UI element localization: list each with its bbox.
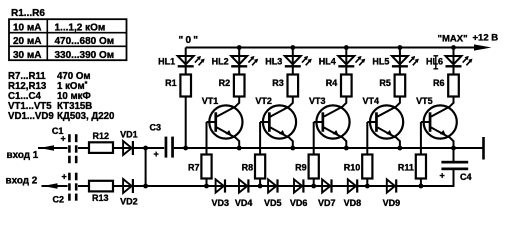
svg-text:VD1...VD9: VD1...VD9 (8, 111, 54, 122)
svg-text:470...680 Ом: 470...680 Ом (55, 36, 115, 47)
svg-text:вход 2: вход 2 (6, 176, 38, 187)
svg-text:C2: C2 (53, 194, 65, 204)
svg-text:C4: C4 (460, 172, 472, 182)
svg-text:VD3: VD3 (211, 198, 229, 208)
svg-text:R1...R6: R1...R6 (11, 8, 45, 19)
svg-text:R9: R9 (295, 163, 307, 173)
svg-text:+: + (62, 172, 67, 182)
svg-text:R2: R2 (219, 78, 231, 88)
svg-text:VT3: VT3 (309, 96, 326, 106)
svg-text:VT2: VT2 (255, 96, 272, 106)
svg-text:+: + (61, 134, 66, 144)
svg-text:HL5: HL5 (372, 57, 389, 67)
svg-text:"MAX": "MAX" (438, 34, 468, 45)
svg-text:C3: C3 (150, 122, 162, 132)
svg-text:R10: R10 (344, 163, 361, 173)
svg-text:R7: R7 (188, 163, 200, 173)
svg-text:+: + (440, 171, 445, 181)
svg-text:VD2: VD2 (120, 196, 138, 206)
svg-text:КД503, Д220: КД503, Д220 (57, 111, 114, 122)
svg-text:HL2: HL2 (212, 57, 229, 67)
svg-text:+: + (154, 149, 159, 159)
svg-text:R5: R5 (379, 78, 391, 88)
svg-text:VD8: VD8 (344, 198, 362, 208)
svg-text:VT5: VT5 (416, 96, 433, 106)
svg-text:вход 1: вход 1 (7, 150, 39, 161)
svg-text:+12 В: +12 В (473, 33, 499, 44)
svg-text:VD9: VD9 (383, 198, 401, 208)
svg-text:30 мА: 30 мА (13, 50, 42, 61)
svg-text:VT1: VT1 (202, 96, 219, 106)
svg-text:10 мА: 10 мА (13, 23, 42, 34)
svg-text:HL4: HL4 (319, 57, 336, 67)
svg-text:R6: R6 (433, 78, 445, 88)
svg-text:VD1: VD1 (120, 129, 138, 139)
svg-text:330...390 Ом: 330...390 Ом (55, 50, 115, 61)
svg-text:VD4: VD4 (235, 198, 253, 208)
svg-text:VD6: VD6 (290, 198, 308, 208)
svg-text:R13: R13 (92, 193, 109, 203)
svg-text:VD7: VD7 (318, 198, 336, 208)
svg-text:VT4: VT4 (363, 96, 380, 106)
svg-text:HL6: HL6 (426, 57, 443, 67)
svg-text:1...1,2 кОм: 1...1,2 кОм (55, 23, 106, 34)
svg-text:HL3: HL3 (265, 57, 282, 67)
svg-text:R4: R4 (326, 78, 338, 88)
svg-text:R11: R11 (398, 163, 414, 173)
svg-text:HL1: HL1 (158, 57, 175, 67)
svg-text:"0": "0" (179, 35, 201, 46)
svg-text:R12: R12 (93, 131, 110, 141)
svg-text:R3: R3 (272, 78, 284, 88)
svg-text:R8: R8 (242, 163, 254, 173)
svg-text:VD5: VD5 (264, 198, 282, 208)
svg-text:R1: R1 (165, 78, 177, 88)
svg-text:20 мА: 20 мА (13, 36, 42, 47)
